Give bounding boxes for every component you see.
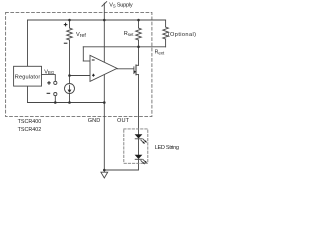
wire Vref top lead: [69, 20, 71, 28]
Vref minus: [64, 42, 68, 44]
wire op-amp negative supply / GND pin: [103, 74, 105, 170]
Vref plus: [64, 23, 68, 27]
wire op-amp noninverting input: [70, 75, 91, 77]
current source arrowhead: [68, 90, 72, 93]
regulator U2 box: [14, 66, 42, 86]
transistor Q1 MOSFET: [133, 67, 135, 74]
wire Vs supply pin vertical: [103, 3, 105, 20]
svg-text:TSCR400: TSCR400: [18, 119, 42, 125]
op-amp U1 triangle: [90, 55, 117, 81]
wire Vref bottom to current source: [69, 40, 71, 84]
wire Rset top lead: [138, 20, 140, 28]
LED string dashed box: [124, 129, 148, 163]
wire current source to ground rail: [69, 94, 71, 103]
VBG plus: [47, 81, 51, 85]
wire regulator bottom to ground rail: [27, 86, 29, 102]
wire VBG from regulator to + terminal: [42, 75, 56, 82]
node + terminal circle VBG: [54, 81, 57, 84]
svg-text:GND: GND: [88, 118, 100, 124]
wire op-amp inverting input: [83, 60, 90, 62]
VBG minus: [47, 92, 51, 94]
svg-text:OUT: OUT: [117, 118, 130, 124]
LED D2: [135, 155, 143, 159]
svg-text:Vref: Vref: [76, 32, 86, 39]
supply terminal tick: [102, 2, 107, 7]
wire drain to sense node: [138, 47, 140, 66]
svg-text:TSCR402: TSCR402: [18, 127, 42, 133]
svg-text:LED String: LED String: [155, 145, 179, 151]
junction dots: [54, 19, 140, 172]
svg-text:VS Supply: VS Supply: [109, 3, 133, 9]
svg-text:VBG: VBG: [44, 69, 55, 75]
node - terminal circle: [54, 93, 57, 96]
wire Rext right branch top: [165, 20, 167, 27]
plus minus signs: [47, 23, 95, 94]
resistor Vref (reference element): [67, 28, 73, 40]
ground symbol: [103, 170, 105, 172]
current source I1: [65, 84, 75, 94]
wire op-amp positive supply: [103, 20, 105, 62]
LED D1: [135, 134, 143, 138]
op-amp minus: [92, 59, 95, 61]
wire top rail: [28, 19, 166, 21]
wire source to OUT pin: [138, 75, 140, 135]
svg-text:Rset: Rset: [124, 31, 134, 37]
svg-text:Rext: Rext: [155, 50, 165, 56]
wire Rext bottom lead: [165, 39, 167, 47]
svg-text:(Optional): (Optional): [168, 32, 197, 38]
wire between LEDs: [138, 139, 140, 155]
wire bottom ground rail: [28, 102, 105, 104]
wire Rset bottom lead: [138, 40, 140, 47]
IC boundary dashed box: [6, 12, 152, 116]
wire LED string bottom: [104, 159, 138, 170]
wire op-amp output to gate: [117, 68, 134, 70]
wire feedback vertical: [82, 47, 84, 61]
wire sense node horizontal: [83, 46, 165, 48]
wire left vertical to regulator: [27, 20, 29, 66]
op-amp plus: [92, 74, 95, 77]
svg-text:Regulator: Regulator: [15, 74, 41, 80]
resistor Rset: [136, 28, 142, 40]
resistor Rext optional: [163, 27, 169, 39]
wire - terminal to ground rail: [54, 96, 56, 103]
